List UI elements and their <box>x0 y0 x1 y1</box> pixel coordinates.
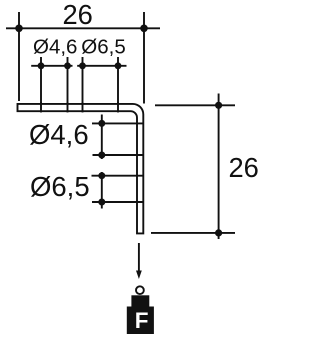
svg-text:Ø4,6: Ø4,6 <box>29 119 89 150</box>
svg-text:26: 26 <box>229 152 259 183</box>
svg-text:Ø6,5: Ø6,5 <box>81 36 125 59</box>
svg-text:Ø4,6: Ø4,6 <box>33 36 77 59</box>
svg-text:26: 26 <box>63 0 93 30</box>
svg-text:Ø6,5: Ø6,5 <box>30 171 90 202</box>
svg-text:F: F <box>135 308 149 333</box>
